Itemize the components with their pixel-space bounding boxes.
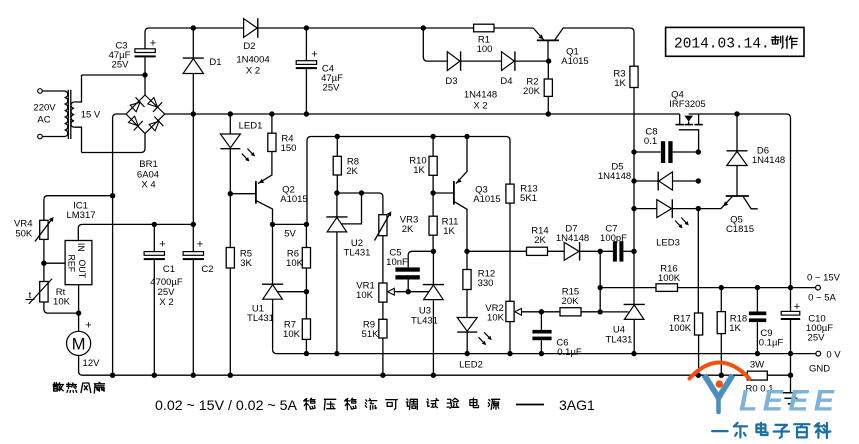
svg-text:10K: 10K [283, 329, 301, 340]
potentiometer VR4 [40, 220, 48, 239]
title dash [516, 404, 544, 406]
diode D7 [564, 242, 579, 260]
wire C1 stub [153, 224, 155, 251]
svg-text:3W: 3W [750, 360, 764, 371]
Q5 emitter [698, 197, 732, 209]
svg-text:15 V: 15 V [81, 110, 101, 121]
resistor R17 [695, 313, 703, 335]
resistor R3 [630, 66, 638, 87]
capacitor C2 [183, 252, 203, 256]
LED2 arrows [479, 337, 485, 344]
svg-text:25V: 25V [112, 60, 130, 71]
wire LED3 anode [634, 208, 657, 210]
LED1 arrows [242, 154, 248, 161]
capacitor C3 [135, 49, 155, 53]
node C7 right on R3 column [631, 249, 636, 254]
wire R8 bottom to U2 node [336, 175, 338, 193]
U1 anode to 0V bus [273, 299, 816, 353]
svg-text:X 4: X 4 [141, 180, 155, 191]
wire R11 bottom [432, 235, 434, 251]
VR3 arrow [375, 213, 391, 241]
node main bus at C1 [152, 373, 157, 378]
bridge diode top-right [148, 98, 158, 108]
wire C6 bottom [540, 340, 542, 353]
Q1 base wire [547, 40, 549, 61]
wire D6 anode to Q5 base [736, 166, 738, 197]
wire U2 row to VR3 [337, 193, 383, 215]
Q2 collector [257, 201, 273, 225]
node 5V rail at R6 column [304, 222, 309, 227]
bridge diode top-left [130, 102, 140, 112]
REF wire to IC1 [44, 262, 65, 264]
watermark orange arc [690, 363, 750, 379]
node main bus right [788, 373, 793, 378]
wire C8 right [673, 151, 699, 153]
svg-text:C1815: C1815 [726, 224, 754, 235]
wire secondary to bridge bottom [82, 134, 146, 153]
bridge diode bottom-left [129, 116, 139, 126]
Q3 emitter [456, 137, 467, 184]
resistor R13 [506, 184, 514, 203]
wire D6 cathode to rail [736, 114, 738, 151]
Q3 collector [455, 202, 468, 252]
svg-text:OUT: OUT [77, 260, 87, 279]
node R3 column at D5 [631, 178, 636, 183]
wire C7 right [623, 250, 634, 252]
wire Q3 base [433, 192, 454, 194]
node U1 ref at R6/R7 [304, 289, 309, 294]
svg-text:100pF: 100pF [600, 233, 627, 244]
wire R1 to Q1 emitter [494, 27, 533, 29]
wire C3 stub [144, 57, 146, 75]
svg-text:C1: C1 [163, 264, 175, 275]
node 0V bus at U2 [334, 351, 339, 356]
wire R5 to main bus [229, 268, 231, 375]
svg-text:IN: IN [76, 243, 86, 252]
svg-text:LED3: LED3 [656, 238, 680, 249]
svg-text:X 2: X 2 [246, 66, 260, 77]
wire bridge left vertex down to ground bus [113, 114, 127, 375]
title CJK part [304, 398, 316, 410]
VR1 wiper arrow [388, 288, 395, 295]
wire R9 to main bus [382, 338, 384, 375]
node gate column at C8 [696, 149, 701, 154]
U2 anode to 0V bus [336, 232, 338, 354]
svg-text:5V: 5V [284, 229, 296, 240]
node R15 row right [598, 309, 603, 314]
wire main bus right of R0 [767, 374, 790, 376]
wire R13 to VR2 [509, 203, 511, 301]
node rail114 at C4 [304, 111, 309, 116]
wire C3 bottom to bridge top [144, 75, 146, 95]
svg-text:1K: 1K [729, 323, 741, 334]
svg-text:1N4148: 1N4148 [464, 90, 497, 101]
node bridge neg at main bus [110, 373, 115, 378]
svg-text:12V: 12V [83, 358, 101, 369]
svg-text:AC: AC [37, 115, 50, 126]
svg-text:100K: 100K [669, 323, 692, 334]
svg-text:0 ~ 5A: 0 ~ 5A [808, 293, 836, 304]
resistor R6 [302, 248, 310, 269]
wire right column to main bus [790, 354, 792, 376]
wire Q2 base [230, 193, 256, 195]
wire VR4 row [44, 196, 113, 221]
wire gate column to R17 [697, 209, 699, 313]
svg-text:C2: C2 [201, 264, 213, 275]
node 0V bus at C9 [755, 351, 760, 356]
svg-text:LM317: LM317 [66, 210, 95, 221]
svg-text:D2: D2 [243, 41, 255, 52]
svg-text:LED2: LED2 [459, 360, 483, 371]
wire LED2 to 0V bus [466, 332, 468, 354]
TL431 U3 [423, 284, 444, 286]
node rail114 at R4 [269, 111, 274, 116]
transistor Q2 base bar [255, 181, 257, 204]
resistor R16 [656, 284, 678, 292]
node C2 top [191, 222, 196, 227]
svg-text:1N4004: 1N4004 [236, 55, 269, 66]
svg-text:BR1: BR1 [139, 159, 157, 170]
wire 5V feed rail [307, 137, 510, 225]
wire D1 column down to C2 [192, 114, 194, 252]
svg-text:100K: 100K [658, 273, 681, 284]
potentiometer VR2 [506, 301, 514, 321]
node top rail at D1 [191, 25, 196, 30]
node R16 row left [598, 285, 603, 290]
capacitor C9 [749, 312, 766, 316]
diode D2 [244, 19, 258, 38]
resistor R11 [429, 216, 437, 235]
bridge diode bottom-right [149, 121, 159, 130]
node main bus at U3 [431, 373, 436, 378]
svg-text:2K: 2K [346, 166, 358, 177]
watermark chinese text [712, 430, 727, 432]
wire C10 bottom [790, 320, 792, 354]
capacitor C6 [532, 330, 551, 334]
wire LED1 to Q2 base node [229, 149, 231, 194]
wire [42, 90, 64, 92]
svg-text:TL431: TL431 [247, 313, 274, 324]
wire rail114 LED1 column [229, 114, 231, 134]
TL431 U2 [326, 216, 347, 218]
svg-text:330: 330 [478, 278, 494, 289]
wire VR1 to R9 [382, 302, 384, 319]
watermark orange dot [716, 380, 723, 387]
svg-text:1N4148: 1N4148 [598, 171, 631, 182]
svg-text:10K: 10K [53, 297, 71, 308]
node C1 top [152, 222, 157, 227]
wire R11 top [432, 193, 434, 216]
wire C5 top riser [408, 251, 433, 267]
VR1 wiper wire [394, 291, 428, 293]
Q1 collector [555, 28, 634, 66]
node top rail at D3 branch [421, 25, 426, 30]
wire D2 to C4 node [258, 27, 473, 29]
svg-text:51K: 51K [362, 329, 380, 340]
svg-text:LEEE: LEEE [739, 385, 839, 418]
wire C1 bottom [153, 260, 155, 375]
wire node 75 to C3 [82, 74, 146, 76]
svg-text:3K: 3K [240, 258, 252, 269]
resistor R2 [544, 79, 552, 96]
wire C2 bottom [192, 260, 194, 375]
resistor R14 [527, 247, 548, 255]
wire R15 right [581, 311, 600, 313]
node R3 column at C8 [631, 149, 636, 154]
date box text zhi-zuo [771, 36, 783, 48]
svg-text:150: 150 [281, 143, 297, 154]
node U2 cathode [334, 190, 339, 195]
capacitor C5 [395, 267, 419, 271]
transistor Q3 base bar [453, 181, 455, 204]
svg-text:0.1µF: 0.1µF [557, 347, 582, 358]
U3 anode to main bus [432, 300, 434, 375]
svg-text:220V: 220V [33, 103, 56, 114]
wire R3 column LED3 to C7 [633, 209, 635, 252]
wire D4 to Q1 base node [516, 60, 549, 62]
wire R6 top [305, 224, 307, 247]
svg-text:+: + [150, 38, 156, 50]
svg-text:2K: 2K [402, 224, 414, 235]
transformer T1 core [67, 90, 69, 139]
wire IC1 OUT down [78, 285, 80, 313]
node R16 row at C9 [755, 285, 760, 290]
svg-text:0.02 ~ 15V / 0.02 ~ 5A: 0.02 ~ 15V / 0.02 ~ 5A [155, 398, 298, 414]
node R16 row at C10 [788, 285, 793, 290]
wire R2 to rail114 [547, 96, 549, 114]
node rail114 at R2 [546, 111, 551, 116]
transformer T1 primary winding [65, 91, 68, 137]
node Q1 base / R2 [546, 58, 551, 63]
node 0V bus at VR2 [507, 351, 512, 356]
TL431 U4 [624, 303, 645, 305]
svg-text:+: + [159, 239, 165, 251]
watermark Y symbol [704, 375, 718, 398]
node REF junction [41, 261, 46, 266]
svg-text:D4: D4 [500, 76, 512, 87]
node 0V bus at C10 [788, 351, 793, 356]
wire bridge right vertex to rail [165, 113, 680, 115]
wire LED1 node to R5 [229, 194, 231, 248]
node R14 row at Q3 collector [464, 249, 469, 254]
VR2 wiper arrow [515, 308, 522, 315]
wire VR4 to REF node [43, 239, 45, 263]
node 0V bus at R7 [304, 351, 309, 356]
AC input terminal bottom [38, 134, 43, 139]
svg-text:REF: REF [67, 254, 77, 272]
node gate column at D5 [696, 178, 701, 183]
resistor R8 [333, 156, 341, 175]
svg-text:A1015: A1015 [473, 194, 500, 205]
svg-text:1K: 1K [413, 165, 425, 176]
wire M bottom to main bus [79, 356, 748, 376]
capacitor C7 [613, 241, 617, 261]
resistor R0 [747, 371, 767, 380]
node 5V rail at Q2 collector [270, 222, 275, 227]
node feed rail at R8 [335, 134, 340, 139]
wire R18 to main bus [720, 334, 722, 376]
node C3 bottom junction [142, 72, 147, 77]
wire secondary bottom [74, 127, 81, 152]
resistor R5 [226, 248, 234, 269]
VR2 wiper wire [522, 311, 561, 313]
Q1 emitter [533, 28, 544, 40]
wire [42, 136, 64, 138]
node 0V bus at U4 [631, 351, 636, 356]
resistor R10 [429, 156, 437, 175]
svg-text:25V: 25V [323, 83, 341, 94]
R16 row wire [600, 287, 656, 289]
U1 ref wire [278, 291, 307, 293]
wire IC1 IN to C1/C2 row [78, 224, 193, 240]
TL431 U1 [262, 283, 283, 285]
wire R3 column C8 to D5 [633, 152, 635, 181]
svg-text:0 V: 0 V [826, 350, 841, 361]
capacitor C1 [144, 252, 164, 256]
svg-text:TL431: TL431 [606, 335, 633, 346]
svg-text:D1: D1 [209, 57, 221, 68]
wire R3 column D5 to LED3 [633, 181, 635, 209]
wire R3 down to C8 node [633, 88, 635, 153]
svg-text:10K: 10K [286, 258, 304, 269]
label san-re-feng-shan [53, 383, 63, 392]
wire rail114 R4 column [271, 114, 273, 133]
svg-text:TL431: TL431 [344, 248, 371, 259]
wire R18 top [720, 288, 722, 312]
wire D5 anode [673, 180, 699, 182]
svg-text:20K: 20K [562, 296, 580, 307]
wire REF node to Rt [43, 263, 45, 281]
node C7 left / D7 [598, 249, 603, 254]
node Q3 base junction [430, 190, 435, 195]
Rt diagonal [29, 279, 52, 304]
fan motor M [67, 331, 91, 355]
Q2 emitter wire [258, 152, 272, 184]
svg-text:A1015: A1015 [280, 194, 307, 205]
wire M top [78, 313, 80, 331]
resistor R1 [474, 24, 494, 32]
wire C10 top [790, 288, 792, 312]
svg-text:25V: 25V [808, 333, 826, 344]
wire C4 bottom to rail114 [305, 69, 307, 114]
svg-text:50K: 50K [15, 229, 33, 240]
wire D7 to C7 node [580, 250, 613, 252]
node 0V bus at C6 [539, 351, 544, 356]
wire rail114 right of Q4 [689, 114, 791, 288]
transformer T1 secondary winding [71, 102, 74, 127]
node 0V bus at LED2 [465, 351, 470, 356]
svg-text:IRF3205: IRF3205 [669, 99, 705, 110]
node rail114 at LED1 [228, 111, 233, 116]
svg-text:1K: 1K [614, 78, 626, 89]
wire R10 bottom [432, 175, 434, 193]
svg-text:5K1: 5K1 [520, 193, 537, 204]
Q4 gate line [679, 130, 699, 152]
svg-text:A1015: A1015 [561, 56, 588, 67]
thermistor Rt [40, 282, 48, 303]
potentiometer VR1 [379, 283, 387, 302]
wire D3 to D4 [461, 60, 501, 62]
date box 2014.03.14 [666, 27, 804, 56]
resistor R18 [717, 312, 725, 334]
wire VR3 to VR1 [382, 236, 384, 283]
svg-text:3AG1: 3AG1 [559, 397, 595, 413]
node VR1 wiper / C5 [406, 289, 411, 294]
wire R10 top [432, 137, 434, 157]
resistor R4 [268, 133, 276, 151]
wire C7 node down [599, 251, 601, 312]
node VR2 wiper / C6 [539, 309, 544, 314]
svg-text:2K: 2K [534, 235, 546, 246]
wire R16 to output terminal [678, 287, 816, 289]
wire secondary top to node [74, 75, 81, 102]
resistor R7 [302, 319, 310, 340]
wire U2 cathode stub [336, 193, 338, 217]
svg-text:1N4148: 1N4148 [752, 155, 785, 166]
LED3 diode [657, 200, 672, 218]
node main bus at R5 [228, 373, 233, 378]
wire Rt to OUT node [44, 302, 79, 313]
diode D1 [183, 59, 203, 74]
wire U1 cathode [272, 224, 274, 284]
svg-text:D3: D3 [445, 76, 457, 87]
capacitor C8 [661, 141, 665, 163]
wire D1 anode to rail114 [192, 74, 194, 115]
resistor R15 [560, 308, 581, 316]
svg-text:1K: 1K [443, 226, 455, 237]
wire C6 top [540, 312, 542, 330]
0V terminal [816, 351, 821, 356]
svg-text:10K: 10K [487, 313, 505, 324]
svg-text:0 ~ 15V: 0 ~ 15V [807, 273, 841, 284]
node rail114 at D6 [734, 111, 739, 116]
wire VR2 bottom to 0V bus [509, 322, 511, 354]
wire to ground symbol [790, 375, 792, 393]
diode D6 [727, 151, 747, 165]
wire C9 top [756, 288, 758, 312]
svg-text:2014.03.14.: 2014.03.14. [674, 37, 770, 53]
node main bus at C2 [191, 373, 196, 378]
capacitor C10 [781, 311, 800, 315]
svg-text:+: + [197, 239, 203, 251]
wire R7 bottom [305, 339, 307, 353]
wire R3 column C7 to U4 [633, 251, 635, 304]
svg-text:10nF: 10nF [386, 257, 408, 268]
diode D3 [447, 52, 460, 71]
svg-text:100: 100 [477, 44, 493, 55]
diode D5 pointing left [659, 172, 673, 190]
wire U3 cathode [432, 251, 434, 284]
wire LED3 cathode [672, 208, 698, 210]
resistor R12 [463, 270, 471, 290]
node bridge neg at VR4 row [110, 193, 115, 198]
resistor R9 [379, 319, 387, 338]
ground symbol [780, 392, 801, 394]
LED2 diode down [457, 318, 477, 332]
node U2 ref branch [359, 190, 364, 195]
svg-text:LED1: LED1 [239, 121, 263, 132]
wire R17 to main bus [698, 335, 700, 375]
potentiometer VR3 [379, 215, 387, 236]
U2 ref L-wire [342, 193, 362, 224]
LED3 arrows [675, 221, 681, 228]
wire R7 top [305, 292, 307, 319]
svg-text:X 2: X 2 [473, 101, 487, 112]
svg-text:0.1: 0.1 [644, 136, 657, 147]
capacitor C4 [305, 28, 307, 61]
Q5 collector [743, 197, 757, 209]
wire C8 left [634, 151, 661, 153]
